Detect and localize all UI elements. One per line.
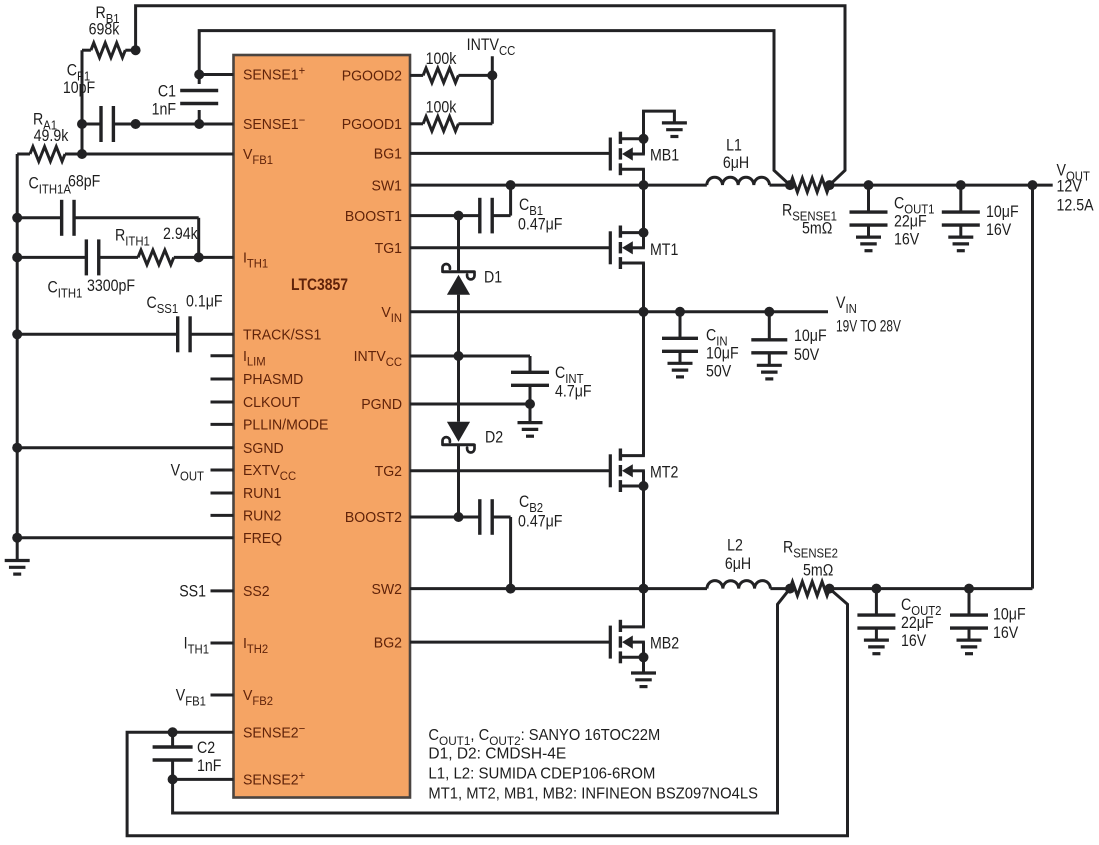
- svg-text:0.47μF: 0.47μF: [518, 216, 562, 234]
- label 100k lower: [426, 98, 457, 116]
- wire TG2 to MT2 gate: [410, 469, 609, 472]
- svg-text:MT1: MT1: [650, 241, 678, 259]
- wire second rail from SENSE1+ node to RSENSE1 kelvin (left): [199, 31, 790, 186]
- diode D2 CMDSH-4E (BOOST2): [443, 356, 504, 517]
- svg-text:D1, D2: CMDSH-4E: D1, D2: CMDSH-4E: [428, 746, 566, 763]
- svg-text:5mΩ: 5mΩ: [802, 220, 832, 238]
- capacitor C1 1nF: [152, 75, 219, 130]
- transistor MB2: [610, 620, 679, 664]
- svg-text:100k: 100k: [426, 50, 457, 68]
- wire VFB1 pin: [82, 153, 234, 156]
- svg-text:100k: 100k: [426, 98, 457, 116]
- capacitor COUT1 22uF 16V: [850, 185, 935, 249]
- transistor MB1: [610, 132, 679, 176]
- svg-text:TG1: TG1: [375, 241, 402, 257]
- svg-text:0.1μF: 0.1μF: [186, 293, 223, 311]
- svg-text:3300pF: 3300pF: [87, 277, 135, 295]
- pin stub CLKOUT: [211, 401, 234, 404]
- capacitor CITH1A 68pF: [12, 173, 199, 258]
- svg-text:12V: 12V: [1057, 178, 1083, 196]
- pin stub ITH2 with ITH1 net label: [184, 635, 234, 657]
- wire SENSE2- pin to bottom rail: [127, 589, 847, 836]
- svg-text:SENSE2−: SENSE2−: [243, 722, 305, 742]
- capacitor CF1 10pF: [63, 62, 136, 142]
- svg-text:16V: 16V: [901, 632, 927, 650]
- capacitor CIN 10uF 50V: [662, 312, 739, 381]
- svg-text:BG2: BG2: [374, 635, 402, 651]
- diode D1 CMDSH-4E (BOOST1): [443, 216, 503, 356]
- wire MB1 source to ground loop: [644, 111, 675, 139]
- svg-text:MT1, MT2, MB1, MB2: INFINEON B: MT1, MT2, MB1, MB2: INFINEON BSZ097NO4LS: [428, 785, 758, 802]
- svg-text:50V: 50V: [794, 346, 820, 364]
- svg-text:BG1: BG1: [374, 146, 402, 162]
- capacitor CIN2 10uF 50V: [751, 312, 826, 366]
- wire VOUT rail (channel 1 output): [830, 180, 1053, 190]
- pin stub RUN2: [211, 514, 234, 517]
- svg-text:FREQ: FREQ: [243, 531, 282, 547]
- ground CIN: [668, 363, 693, 377]
- ground CIN2: [757, 365, 782, 379]
- svg-text:4.7μF: 4.7μF: [555, 383, 592, 401]
- capacitor C2 1nF: [153, 732, 222, 784]
- ground MB2 source: [631, 673, 656, 687]
- svg-text:L1: L1: [726, 137, 742, 155]
- svg-text:LTC3857: LTC3857: [291, 276, 348, 295]
- wire L1 to RSENSE1: [770, 180, 796, 190]
- svg-text:16V: 16V: [894, 231, 920, 249]
- svg-text:SGND: SGND: [243, 441, 284, 457]
- ground COUT1B: [948, 237, 973, 251]
- svg-text:SS1: SS1: [179, 583, 206, 601]
- svg-text:L1, L2: SUMIDA CDEP106-6ROM: L1, L2: SUMIDA CDEP106-6ROM: [428, 765, 655, 782]
- svg-text:PGOOD1: PGOOD1: [342, 117, 402, 133]
- svg-text:0.47μF: 0.47μF: [518, 513, 562, 531]
- wire MT2 drain to VIN rail: [642, 312, 645, 456]
- svg-text:D2: D2: [485, 429, 503, 447]
- wire MB1 drain to SW1: [642, 169, 645, 185]
- svg-text:BOOST2: BOOST2: [345, 510, 402, 526]
- wire L2 to RSENSE2: [770, 584, 795, 594]
- svg-text:68pF: 68pF: [68, 173, 100, 191]
- svg-text:10μF: 10μF: [993, 606, 1026, 624]
- svg-text:6μH: 6μH: [725, 555, 751, 573]
- svg-text:12.5A: 12.5A: [1057, 197, 1095, 215]
- svg-text:698k: 698k: [89, 21, 120, 39]
- wire SW2 node: [410, 584, 707, 594]
- resistor R2 100k (PGOOD1 pull-up): [410, 117, 492, 132]
- pin stub PHASMD: [211, 378, 234, 381]
- IC U1 pin labels and part number: [243, 64, 402, 789]
- svg-text:6μH: 6μH: [723, 154, 749, 172]
- label VIN 19V TO 28V: [836, 294, 901, 336]
- svg-text:10μF: 10μF: [706, 345, 739, 363]
- pin stub PLLIN/MODE: [211, 423, 234, 426]
- svg-text:10pF: 10pF: [63, 79, 95, 97]
- wire MB2 drain to SW2: [642, 589, 645, 627]
- svg-text:MB1: MB1: [650, 147, 679, 165]
- resistor R1 100k (PGOOD2 pull-up): [410, 50, 492, 83]
- transistor MT2: [610, 449, 678, 493]
- svg-text:SW2: SW2: [371, 581, 402, 597]
- pin stub VFB2 with VFB1 net label: [176, 687, 234, 709]
- resistor RSENSE1 5mOhm: [782, 178, 837, 238]
- svg-text:TRACK/SS1: TRACK/SS1: [243, 327, 321, 343]
- wire left ground rail: [16, 154, 19, 561]
- ground COUT2B: [957, 640, 982, 654]
- svg-text:2.94k: 2.94k: [163, 225, 198, 243]
- svg-text:SENSE1−: SENSE1−: [243, 114, 305, 134]
- svg-text:PHASMD: PHASMD: [243, 372, 303, 388]
- svg-text:5mΩ: 5mΩ: [803, 562, 833, 580]
- wire SENSE1+ pin to C1 node: [194, 70, 233, 80]
- wire SENSE1- pin: [131, 119, 234, 129]
- svg-text:22μF: 22μF: [901, 614, 934, 632]
- wire MT1 source to SW1: [642, 185, 645, 233]
- pin stub SS2 with SS1 net label: [179, 583, 233, 601]
- svg-text:SENSE2+: SENSE2+: [243, 769, 305, 789]
- ground PGND/CINT: [518, 404, 543, 436]
- inductor L1 6uH: [707, 137, 770, 186]
- wire FREQ pin to left rail: [12, 533, 233, 543]
- svg-text:50V: 50V: [706, 363, 732, 381]
- wire SW1 node: [410, 180, 707, 190]
- resistor RB1 698k: [82, 4, 141, 124]
- svg-text:D1: D1: [484, 269, 502, 287]
- ground MB1 source: [662, 123, 687, 137]
- wire MT1 drain to VIN rail: [642, 263, 645, 312]
- capacitor CB1 0.47uF: [410, 185, 562, 234]
- svg-text:SENSE1+: SENSE1+: [243, 64, 305, 84]
- ground left rail: [5, 561, 30, 575]
- svg-text:SS2: SS2: [243, 584, 270, 600]
- svg-text:CLKOUT: CLKOUT: [243, 395, 300, 411]
- svg-text:10μF: 10μF: [794, 327, 827, 345]
- pin stub ILIM: [211, 354, 234, 357]
- capacitor COUT2 22uF 16V: [857, 589, 941, 651]
- pin stub RUN1: [211, 492, 234, 495]
- svg-text:C2: C2: [197, 739, 215, 757]
- resistor RA1 49.9k: [17, 111, 87, 162]
- wire TG1 to MT1 gate: [410, 246, 609, 249]
- capacitor CINT 4.7uF: [511, 356, 592, 409]
- capacitor COUT2B 10uF 16V: [950, 589, 1026, 643]
- svg-text:16V: 16V: [986, 221, 1012, 239]
- svg-text:1nF: 1nF: [197, 757, 221, 775]
- ground COUT1: [856, 237, 881, 251]
- wire channel 2 output rail to VOUT: [830, 185, 1033, 593]
- wire INTVCC pin to CINT: [410, 351, 530, 361]
- wire MT2 source to SW2: [642, 486, 645, 589]
- capacitor CSS1 0.1uF: [12, 293, 233, 353]
- svg-text:BOOST1: BOOST1: [345, 208, 402, 224]
- node INTVCC pull-up rail: [467, 36, 516, 124]
- resistor RITH1 2.94k: [98, 225, 203, 265]
- wire VIN node: [410, 307, 828, 317]
- wire MB2 source to ground: [642, 657, 645, 673]
- transistor MT1: [610, 226, 678, 270]
- wire top rail from RB1 node to RSENSE1 kelvin (right): [136, 6, 845, 185]
- wire PGND pin: [410, 403, 530, 406]
- svg-text:C1: C1: [158, 83, 176, 101]
- svg-text:10μF: 10μF: [986, 203, 1019, 221]
- svg-text:PGOOD2: PGOOD2: [342, 68, 402, 84]
- svg-text:49.9k: 49.9k: [34, 127, 69, 145]
- svg-text:19V TO 28V: 19V TO 28V: [836, 318, 901, 336]
- label VOUT 12V 12.5A: [1057, 162, 1095, 215]
- wire SENSE2+ pin to bottom rail: [173, 589, 790, 813]
- svg-text:L2: L2: [727, 537, 743, 555]
- svg-text:MT2: MT2: [650, 464, 678, 482]
- inductor L2 6uH: [707, 537, 770, 589]
- svg-text:PLLIN/MODE: PLLIN/MODE: [243, 417, 329, 433]
- wire ITH1 pin: [199, 256, 234, 259]
- op-amp U1 LTC3857 controller IC body: [234, 55, 411, 798]
- wire SGND pin to left rail: [12, 443, 233, 453]
- capacitor CB2 0.47uF: [410, 493, 562, 589]
- resistor RSENSE2 5mOhm: [783, 539, 838, 596]
- capacitor CITH1 3300pF: [12, 239, 135, 300]
- svg-text:MB2: MB2: [650, 635, 679, 653]
- ground COUT2: [864, 640, 889, 654]
- svg-text:TG2: TG2: [375, 464, 402, 480]
- text BOM notes: [428, 727, 758, 803]
- svg-text:RUN2: RUN2: [243, 508, 281, 524]
- wire BG2 to MB2 gate: [410, 641, 609, 644]
- svg-text:SW1: SW1: [371, 178, 402, 194]
- capacitor COUT1B 10uF 16V: [942, 185, 1019, 239]
- svg-text:16V: 16V: [993, 624, 1019, 642]
- svg-text:RUN1: RUN1: [243, 486, 281, 502]
- wire BG1 to MB1 gate: [410, 152, 609, 155]
- pin stub EXTVCC with VOUT net label: [171, 462, 234, 484]
- svg-text:1nF: 1nF: [152, 101, 176, 119]
- svg-text:22μF: 22μF: [894, 213, 927, 231]
- svg-text:PGND: PGND: [361, 397, 402, 413]
